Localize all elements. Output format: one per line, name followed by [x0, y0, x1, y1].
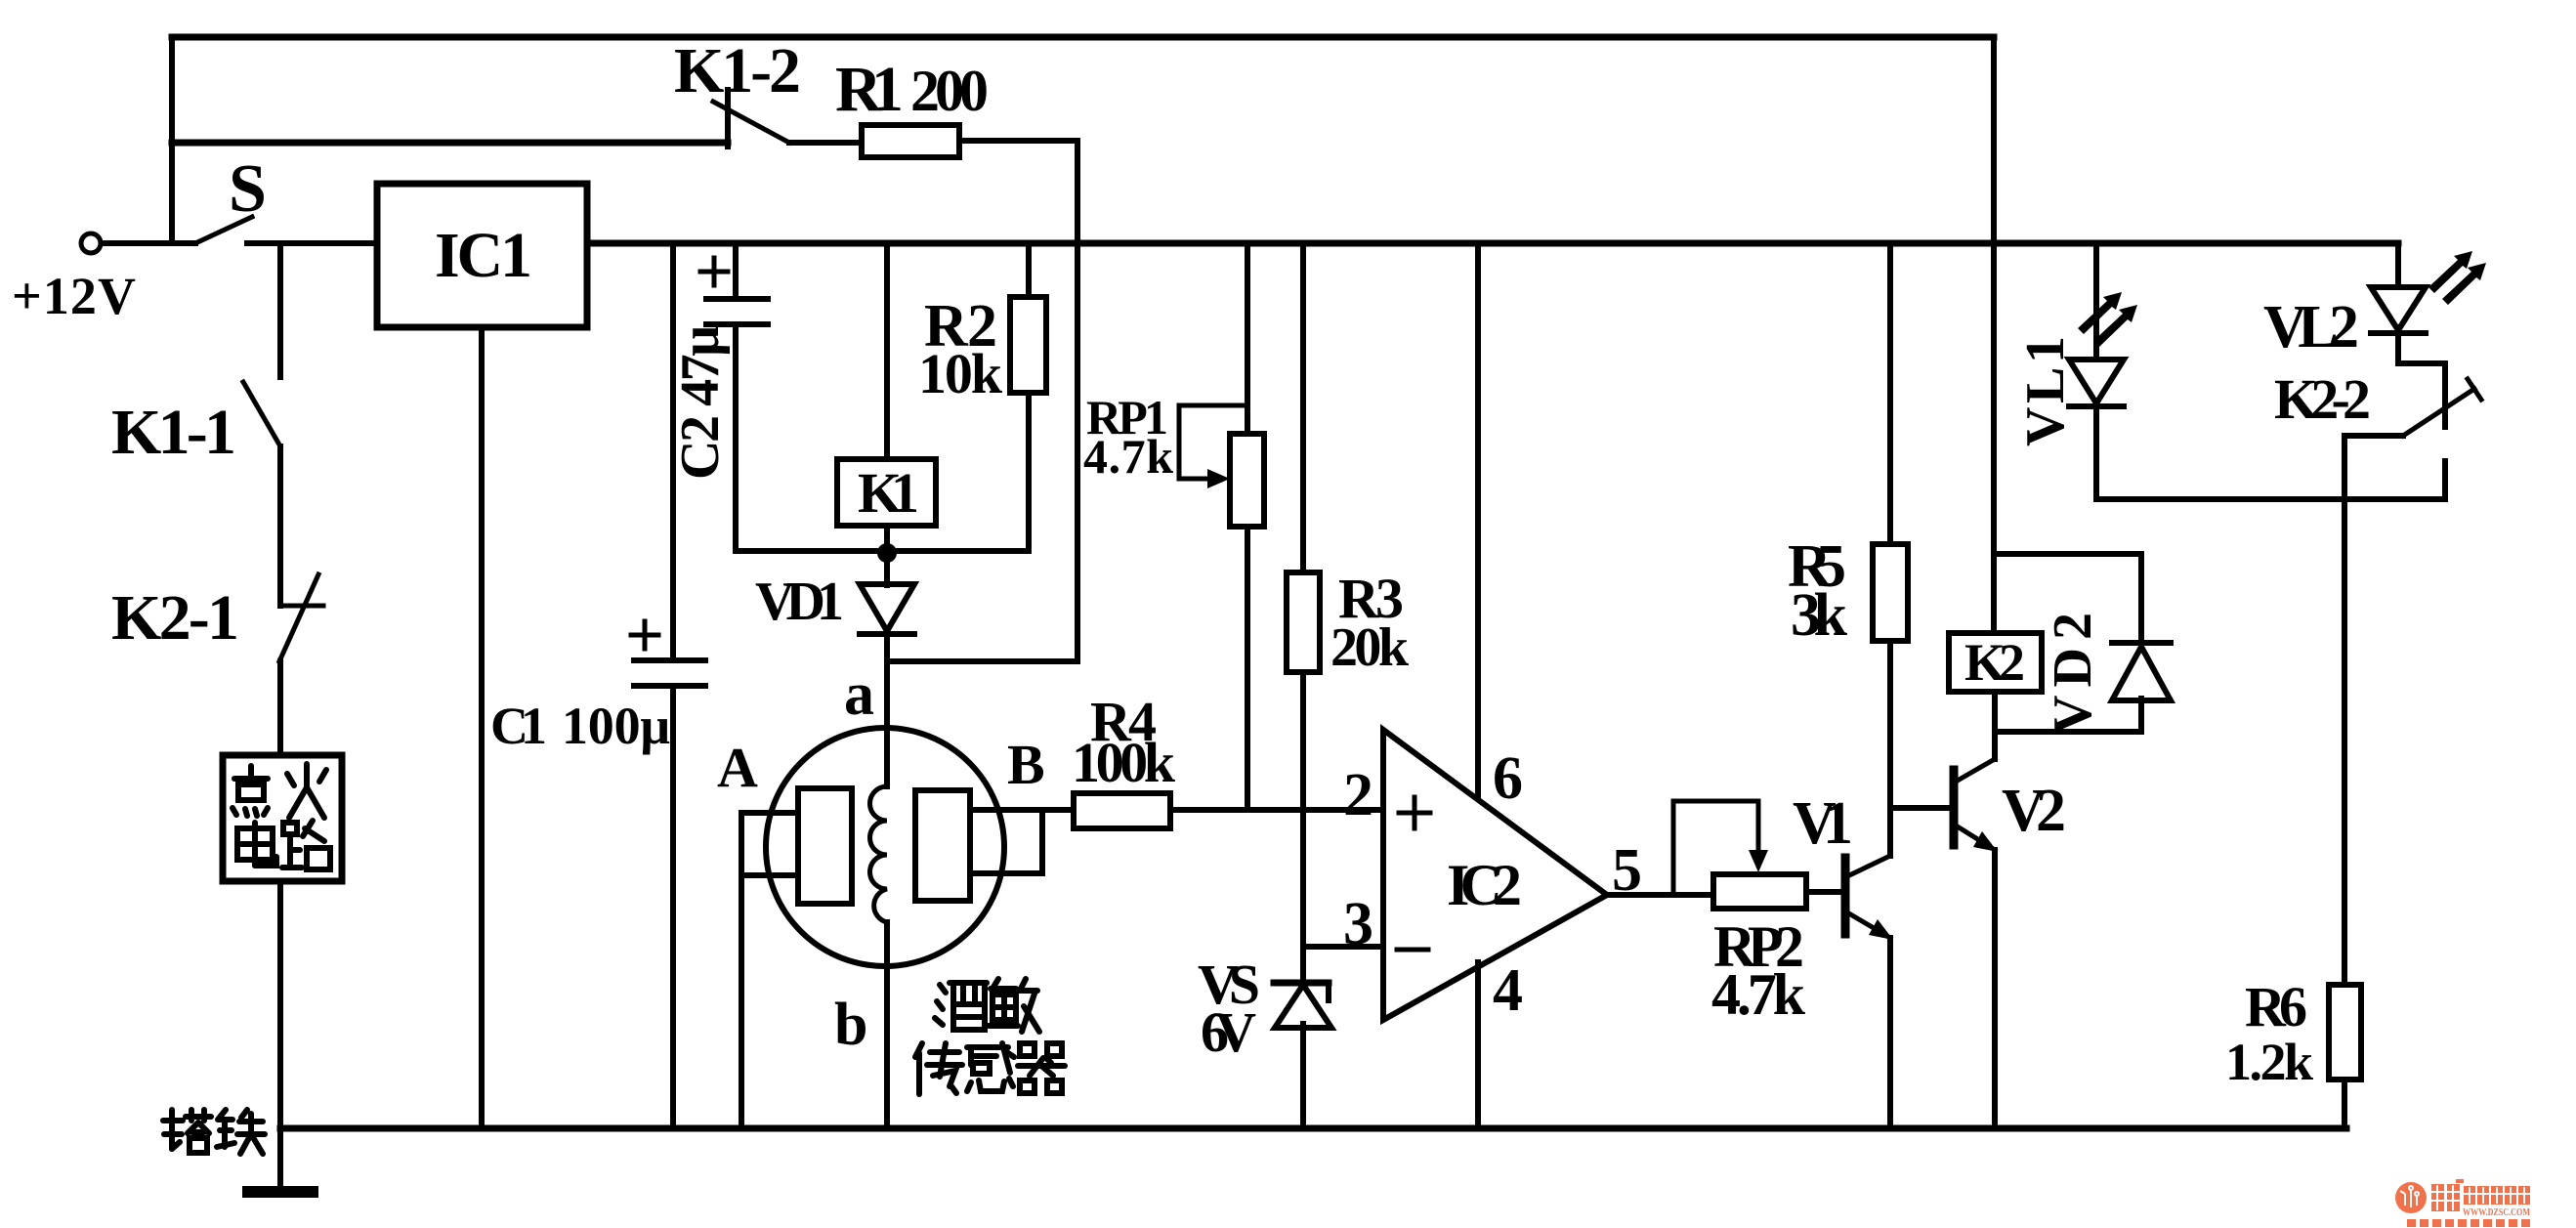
svg-text:K2-2: K2-2 — [2274, 367, 2371, 431]
svg-text:WWW.DZSC.COM: WWW.DZSC.COM — [2463, 1207, 2530, 1218]
svg-text:10k: 10k — [918, 342, 1003, 405]
svg-text:K1: K1 — [858, 461, 919, 525]
svg-text:100μ: 100μ — [562, 697, 670, 755]
svg-text:R6: R6 — [2245, 975, 2307, 1038]
svg-text:K1-1: K1-1 — [111, 397, 236, 468]
svg-text:3k: 3k — [1791, 582, 1848, 649]
svg-text:20k: 20k — [1330, 617, 1410, 678]
svg-text:4.7k: 4.7k — [1711, 962, 1806, 1027]
svg-text:100k: 100k — [1072, 731, 1176, 794]
svg-text:V2: V2 — [2002, 778, 2066, 844]
svg-text:K2: K2 — [1964, 633, 2025, 692]
svg-text:C1: C1 — [490, 697, 547, 755]
svg-text:S: S — [229, 151, 267, 227]
svg-text:6V: 6V — [1201, 1000, 1256, 1064]
svg-text:VL1: VL1 — [2015, 336, 2076, 446]
svg-text:K1-2: K1-2 — [674, 35, 801, 106]
svg-text:a: a — [844, 661, 874, 728]
svg-text:B: B — [1007, 733, 1045, 796]
svg-text:1.2k: 1.2k — [2225, 1033, 2313, 1091]
svg-text:VD2: VD2 — [2043, 613, 2103, 735]
svg-text:2: 2 — [1343, 762, 1373, 828]
svg-text:5: 5 — [1612, 837, 1642, 904]
svg-text:200: 200 — [910, 59, 989, 123]
svg-text:R1: R1 — [835, 54, 904, 125]
svg-text:A: A — [717, 736, 758, 799]
svg-text:3: 3 — [1343, 891, 1373, 957]
svg-text:C2 47μ: C2 47μ — [670, 325, 731, 480]
svg-text:6: 6 — [1493, 745, 1523, 812]
svg-text:VD1: VD1 — [755, 572, 844, 632]
svg-text:IC1: IC1 — [435, 220, 532, 291]
svg-text:VL2: VL2 — [2263, 294, 2359, 360]
svg-text:4.7k: 4.7k — [1083, 429, 1173, 484]
svg-text:V1: V1 — [1793, 790, 1853, 857]
svg-text:b: b — [834, 992, 867, 1058]
svg-text:+12V: +12V — [12, 267, 136, 325]
svg-text:4: 4 — [1493, 957, 1523, 1024]
svg-text:IC2: IC2 — [1447, 853, 1522, 917]
svg-text:K2-1: K2-1 — [111, 582, 239, 654]
